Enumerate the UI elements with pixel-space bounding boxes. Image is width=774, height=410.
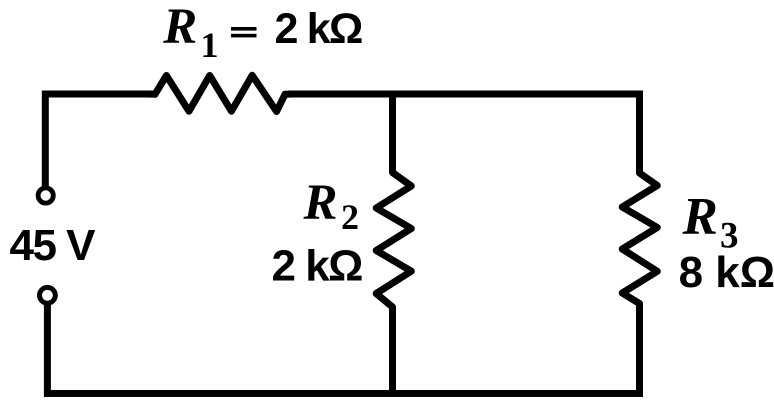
wire left lower + bottom wire [47,304,642,394]
svg-text:R: R [162,0,197,55]
equals sign [231,27,257,31]
svg-text:R: R [682,188,718,246]
svg-text:2 kΩ: 2 kΩ [275,5,362,53]
resistor R1 (zigzag) [148,75,293,111]
svg-text:1: 1 [201,25,219,65]
wire top-left: left vertical + top horizontal to R1 [45,94,153,187]
svg-text:R: R [303,175,338,231]
wire right branch + resistor R3 (zigzag) [622,94,657,397]
terminal bottom (open circle) [40,287,56,303]
svg-text:2 kΩ: 2 kΩ [272,242,363,291]
svg-text:8 kΩ: 8 kΩ [679,248,774,297]
wire middle branch + resistor R2 (zigzag) [376,94,411,397]
svg-text:2: 2 [341,197,359,237]
terminal top (open circle) [38,188,53,203]
svg-text:45 V: 45 V [10,221,97,270]
wire top: R1 to right corner [288,91,643,98]
